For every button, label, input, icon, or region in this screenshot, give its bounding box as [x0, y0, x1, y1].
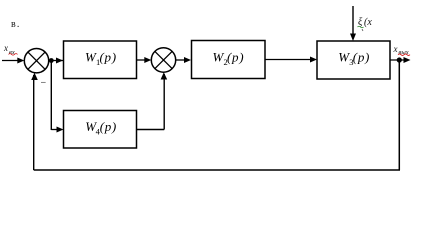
svg-text:(p): (p)	[100, 50, 117, 65]
wire branch from node down to W4 level	[50, 61, 52, 131]
svg-text:(p): (p)	[100, 119, 117, 134]
svg-text:(p): (p)	[227, 49, 244, 64]
svg-text:(x: (x	[364, 17, 372, 28]
wire into W4	[51, 127, 63, 133]
summing junction 1	[24, 49, 48, 73]
wire W4 output vertical into summer2	[161, 72, 168, 129]
input label Xвх	[3, 43, 18, 56]
wire feedback bottom horizontal	[34, 169, 400, 171]
wire feedback right vertical	[398, 60, 400, 170]
wire summer1 to W1	[49, 60, 64, 62]
wire disturbance arrow into W3 top	[350, 6, 356, 41]
svg-text:x: x	[3, 43, 8, 53]
wire W3 output arrow	[390, 57, 411, 63]
wire W4 output horizontal	[137, 129, 165, 131]
node output	[397, 57, 402, 62]
arrowhead into W1	[56, 58, 63, 64]
disturbance label ξ(x	[358, 17, 373, 31]
summing junction 2	[151, 48, 175, 72]
block W2	[192, 41, 266, 79]
wire feedback left vertical into summer1	[31, 73, 38, 170]
wire W1 to summer2	[137, 57, 152, 63]
node after summer 1	[49, 58, 54, 63]
svg-text:x: x	[393, 44, 398, 54]
svg-text:−: −	[41, 78, 47, 89]
output label Xвых	[393, 44, 411, 56]
block W1	[64, 41, 137, 79]
block W4	[64, 111, 137, 149]
block W3	[317, 41, 390, 79]
wire W2 to W3	[265, 57, 317, 63]
wire input arrow	[2, 58, 24, 64]
svg-text:в.: в.	[11, 19, 21, 30]
svg-text:(p): (p)	[353, 49, 370, 64]
wire summer2 to W2	[176, 57, 191, 63]
